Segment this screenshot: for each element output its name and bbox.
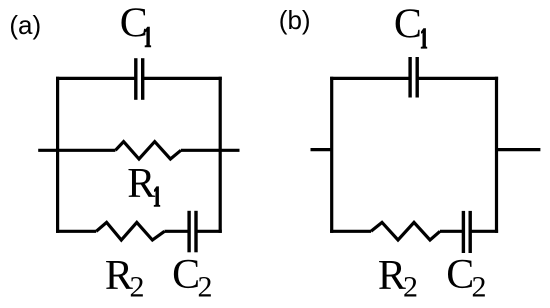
resistor R2 of circuit (a) [96, 222, 164, 240]
svg-text:2: 2 [130, 271, 145, 304]
svg-text:C: C [120, 1, 148, 47]
svg-text:2: 2 [403, 271, 418, 304]
wire: circuit (a) top side, right of C1 [143, 77, 222, 80]
resistor R2 of circuit (b) [371, 222, 440, 240]
wire: circuit (a) top side, left of C1 [56, 77, 136, 80]
wire: circuit (b) top side, left of C1 [330, 77, 410, 80]
wire: circuit (b) right side [495, 77, 498, 233]
label C2 of circuit (b) [446, 252, 486, 304]
capacitor C2 of circuit (a) [189, 211, 196, 253]
wire: circuit (b) bottom side, left of R2 [330, 230, 371, 233]
svg-text:(a): (a) [9, 10, 41, 40]
svg-text:R: R [378, 253, 406, 299]
label C1 of circuit (b) [394, 2, 427, 49]
wire: circuit (a) bottom side, right of C2 [196, 230, 222, 233]
svg-text:R: R [127, 161, 155, 207]
svg-text:C: C [446, 252, 474, 298]
capacitor C2 of circuit (b) [463, 211, 470, 253]
wire: right terminal lead of circuit (a) [181, 149, 240, 152]
svg-text:2: 2 [472, 271, 487, 304]
wire: left terminal lead of circuit (b) [311, 148, 332, 151]
wire: circuit (b) left side [330, 77, 333, 233]
wire: circuit (a) bottom side, between R2 and C2 [165, 230, 190, 233]
wire: circuit (b) top side, right of C1 [417, 77, 498, 80]
label R2 of circuit (b) [378, 253, 418, 303]
wire: circuit (b) bottom side, between R2 and C2 [440, 230, 463, 233]
svg-text:(b): (b) [279, 5, 311, 35]
capacitor C1 of circuit (b) [410, 57, 417, 98]
wire: circuit (a) left side [56, 77, 59, 233]
label R2 of circuit (a) [105, 253, 145, 303]
label R1 of circuit (a) [127, 161, 160, 207]
resistor R1 of circuit (a) [115, 142, 180, 159]
wire: circuit (b) bottom side, right of C2 [470, 230, 498, 233]
wire: circuit (a) right side [219, 77, 222, 233]
svg-text:C: C [172, 252, 200, 298]
wire: circuit (a) bottom side, left of R2 [56, 230, 96, 233]
label C1 of circuit (a) [120, 1, 151, 47]
wire: right terminal lead of circuit (b) [497, 148, 541, 151]
wire: left terminal lead of circuit (a) [38, 149, 115, 152]
label C2 of circuit (a) [172, 252, 212, 304]
capacitor C1 of circuit (a) [136, 58, 143, 100]
svg-text:2: 2 [198, 271, 213, 304]
svg-text:C: C [394, 2, 422, 48]
